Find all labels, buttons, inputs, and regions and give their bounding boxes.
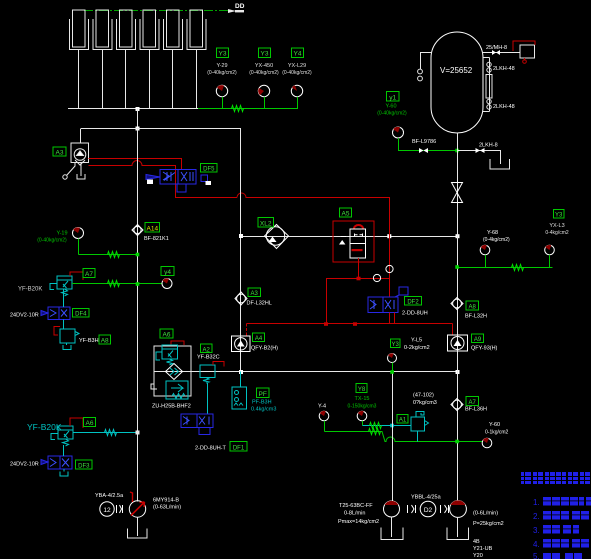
wire A6b to main x137 xyxy=(73,432,138,434)
gauge 2 xyxy=(258,85,270,108)
hand pump A3 xyxy=(63,143,89,179)
coil on A7 line xyxy=(108,281,120,287)
svg-text:PF: PF xyxy=(259,391,267,398)
svg-text:Pmax=14kg/cm2: Pmax=14kg/cm2 xyxy=(338,519,379,525)
accumulator 1 xyxy=(70,10,89,50)
node red junction 355 xyxy=(353,322,357,326)
wire Y-4 line with jog and hop xyxy=(325,432,483,442)
notes line 3 xyxy=(533,525,579,535)
label A8 xyxy=(99,335,111,345)
tank 2 xyxy=(381,528,403,540)
notes line 2 xyxy=(533,511,589,521)
motor M12 xyxy=(95,493,124,516)
svg-text:(0-40kg/cm2): (0-40kg/cm2) xyxy=(37,238,67,244)
drain funnel xyxy=(490,159,510,169)
svg-text:A8: A8 xyxy=(469,305,477,311)
wire x392 return drop xyxy=(392,372,394,502)
wire red main with hop over x241 xyxy=(237,193,390,224)
wire drain line right xyxy=(458,151,501,165)
svg-text:Y-19: Y-19 xyxy=(56,231,67,237)
node junction 241,236 xyxy=(239,234,243,238)
wire red pump header y324 xyxy=(247,323,453,325)
node junction 457,150 xyxy=(455,149,459,153)
svg-text:(0-4kg/cm2): (0-4kg/cm2) xyxy=(483,237,510,243)
gauge y4 xyxy=(161,267,174,289)
svg-text:2LKH-8: 2LKH-8 xyxy=(479,143,498,149)
svg-text:Y-68: Y-68 xyxy=(487,230,498,236)
svg-text:YX-L29: YX-L29 xyxy=(288,63,306,69)
node junction y284 xyxy=(136,282,140,286)
vessel left tap with valves xyxy=(418,53,432,81)
label DF1 xyxy=(230,442,247,452)
accumulator 2 xyxy=(93,10,112,50)
wire main vertical x137 xyxy=(137,129,139,502)
wire hand pump drop xyxy=(80,129,82,144)
label DF5 xyxy=(201,164,218,173)
pressure gauge tag Y4 xyxy=(282,48,312,76)
svg-text:Y4: Y4 xyxy=(294,51,302,58)
svg-text:QFY-B2(H): QFY-B2(H) xyxy=(251,346,278,352)
instrument y1 Y-60 xyxy=(377,92,407,139)
svg-text:4.: 4. xyxy=(533,540,540,549)
label A5 xyxy=(340,208,352,218)
valve BF-L9786 xyxy=(412,139,436,153)
svg-text:(0-40kg/cm2): (0-40kg/cm2) xyxy=(282,70,312,76)
node junction 457,441 xyxy=(455,440,459,444)
label A3 xyxy=(53,147,66,157)
svg-text:Y21-UB: Y21-UB xyxy=(473,546,493,552)
damping coil on bus xyxy=(232,106,244,112)
gauge pair line y267 xyxy=(455,265,552,271)
node junction 457,372 xyxy=(456,370,460,374)
motor D2 xyxy=(411,495,442,517)
relief valve A6b YF-B20K xyxy=(27,418,83,446)
wire A2 drain to DF1 xyxy=(207,383,209,414)
solenoid valve DF1 xyxy=(181,414,227,452)
svg-text:DF1: DF1 xyxy=(233,446,245,452)
pressure gauge tag Y3 xyxy=(207,48,237,76)
notes line 4 xyxy=(533,539,589,549)
svg-text:0-4kg/cm2: 0-4kg/cm2 xyxy=(545,230,569,236)
gauge Y-4 xyxy=(318,404,329,432)
wire red A5 drain xyxy=(358,258,360,279)
check valve A7b xyxy=(413,393,463,411)
accumulator 5 xyxy=(164,10,183,50)
node junction 392,425 xyxy=(390,424,394,428)
svg-text:Y-L5: Y-L5 xyxy=(411,338,422,344)
gauge Y3 on return xyxy=(388,339,401,374)
svg-text:A3: A3 xyxy=(56,150,64,157)
wire main return y372 xyxy=(155,371,458,373)
solenoid valve DF2 xyxy=(368,287,408,313)
svg-text:2-DD-8UH: 2-DD-8UH xyxy=(402,311,428,317)
svg-text:(0-40kg/cm2): (0-40kg/cm2) xyxy=(377,111,407,117)
solenoid valve DF4 xyxy=(10,289,70,329)
svg-text:A14: A14 xyxy=(147,226,159,233)
wire gauge y1 to vessel line xyxy=(399,138,458,151)
svg-text:A9: A9 xyxy=(474,337,482,343)
svg-text:(0-40kg/cm2): (0-40kg/cm2) xyxy=(249,70,279,76)
relief valve A7 YF-B20K xyxy=(18,272,83,296)
svg-text:6MY914-B: 6MY914-B xyxy=(153,498,179,504)
wire red DF2 drains to y324 xyxy=(390,313,395,324)
svg-text:Y20: Y20 xyxy=(473,553,483,559)
gauge tag Y8 TX-15 xyxy=(348,384,377,426)
wire red vertical x390 lower xyxy=(389,224,391,297)
wire gauge Y-19 to main xyxy=(79,254,138,256)
gauge 3 xyxy=(291,85,302,108)
svg-text:QFY-93(H): QFY-93(H) xyxy=(471,346,498,352)
valve A1 xyxy=(411,412,429,442)
level gauge column xyxy=(483,58,492,112)
label A4 xyxy=(251,333,278,352)
svg-text:0-2kg/cm2: 0-2kg/cm2 xyxy=(404,345,430,351)
wire red drop to pump A4 xyxy=(246,324,248,336)
valve A2 YF-B32C xyxy=(197,344,224,383)
wire A7 to gauge y4 xyxy=(72,283,162,285)
label A10 xyxy=(465,301,487,320)
svg-text:1.: 1. xyxy=(533,498,540,507)
vessel right line to level switch xyxy=(483,41,535,63)
shutoff valve hourglass xyxy=(452,183,463,203)
gauge Y-68 xyxy=(480,230,510,268)
svg-text:DF-L32HL: DF-L32HL xyxy=(247,301,272,307)
wire pump P3 to tank xyxy=(457,517,459,537)
solenoid valve DF5 xyxy=(146,170,211,193)
valve 2LKH-8 xyxy=(476,143,498,154)
svg-text:A5: A5 xyxy=(342,211,350,218)
svg-text:ZU-H25B-BHF2: ZU-H25B-BHF2 xyxy=(152,404,191,410)
label XL2 xyxy=(258,218,274,228)
label DF2 xyxy=(402,297,428,317)
svg-text:T25-63BC-FF: T25-63BC-FF xyxy=(339,503,373,509)
svg-text:Y-4: Y-4 xyxy=(318,404,326,410)
svg-text:V=25652: V=25652 xyxy=(440,66,473,75)
svg-text:A6: A6 xyxy=(86,420,94,427)
label A7b xyxy=(465,397,487,413)
filter PF xyxy=(232,372,247,410)
svg-text:YF-B20K: YF-B20K xyxy=(18,287,42,293)
svg-text:A8: A8 xyxy=(101,338,109,345)
svg-text:0-150kg/cm3: 0-150kg/cm3 xyxy=(348,404,377,410)
svg-text:YBA-4/2.5a: YBA-4/2.5a xyxy=(95,493,124,499)
svg-text:4B: 4B xyxy=(473,539,480,545)
check valve A10 xyxy=(451,298,463,310)
wire pump suction line y236 xyxy=(241,236,458,238)
svg-text:BF-L36H: BF-L36H xyxy=(465,407,487,413)
svg-text:YF-B20K: YF-B20K xyxy=(27,422,62,432)
svg-text:(0-40kg/cm2): (0-40kg/cm2) xyxy=(207,70,237,76)
wire header drop xyxy=(137,109,139,129)
check valve A14 xyxy=(132,225,143,236)
check valve A13 xyxy=(235,292,247,305)
pump A4 xyxy=(232,336,251,352)
svg-text:0-8L/min: 0-8L/min xyxy=(344,511,365,517)
svg-text:XL2: XL2 xyxy=(260,221,272,228)
wire pump P1 to tank xyxy=(137,517,139,536)
svg-text:PF-B3H: PF-B3H xyxy=(252,400,272,406)
svg-text:A6: A6 xyxy=(163,332,171,339)
tank 3 xyxy=(447,528,469,540)
svg-text:3.: 3. xyxy=(533,526,540,535)
svg-text:DF5: DF5 xyxy=(203,167,215,173)
label A13 xyxy=(247,288,272,307)
valve A8 YF-B3H xyxy=(54,327,99,350)
node junction y255 xyxy=(136,253,140,257)
filter unit A6 frame xyxy=(151,346,191,396)
tank 1 xyxy=(128,529,148,539)
svg-text:DF3: DF3 xyxy=(78,464,90,470)
svg-text:24DV2-10R: 24DV2-10R xyxy=(10,313,39,319)
svg-text:2LKH-48: 2LKH-48 xyxy=(493,104,515,110)
wire red drop to pump A9 xyxy=(452,324,454,336)
svg-text:2-DD-8UH-T: 2-DD-8UH-T xyxy=(195,446,227,452)
centerline to control system xyxy=(84,3,245,13)
coil on Y-19 line xyxy=(108,252,120,258)
svg-text:y4: y4 xyxy=(164,269,171,276)
svg-text:A2: A2 xyxy=(203,348,211,354)
svg-text:Y-60: Y-60 xyxy=(385,104,396,110)
label A6b xyxy=(84,418,96,428)
svg-text:0?kg/cm3: 0?kg/cm3 xyxy=(413,400,437,406)
svg-text:YX-L3: YX-L3 xyxy=(549,223,564,229)
svg-text:12: 12 xyxy=(103,507,111,514)
label A14 xyxy=(144,223,169,243)
notes title blue CJK xyxy=(521,472,590,484)
node bus junction xyxy=(136,107,140,111)
coil on TX line xyxy=(370,423,382,429)
pump P3 xyxy=(450,500,504,527)
svg-text:(0-6L/min): (0-6L/min) xyxy=(473,511,498,517)
svg-text:D2: D2 xyxy=(424,507,433,514)
svg-text:YF-B3H: YF-B3H xyxy=(79,338,99,344)
svg-text:YF-B32C: YF-B32C xyxy=(197,355,220,361)
svg-text:A1: A1 xyxy=(399,418,407,424)
wire red pump outlet lower with hop xyxy=(89,161,238,198)
node junction 457,236 xyxy=(456,234,460,238)
svg-text:DF4: DF4 xyxy=(75,312,87,318)
filter XL2 xyxy=(265,225,289,249)
svg-text:DD: DD xyxy=(235,3,245,10)
svg-text:(0-63L/min): (0-63L/min) xyxy=(153,505,181,511)
svg-text:A7: A7 xyxy=(85,271,93,278)
wire header line xyxy=(81,128,241,130)
accumulator legs xyxy=(79,50,197,109)
pump A9 xyxy=(404,335,468,351)
wire bus green extension xyxy=(198,108,298,110)
coil on Y-4 line xyxy=(369,429,381,435)
node red junction 326 xyxy=(324,322,328,326)
svg-text:Y8: Y8 xyxy=(358,387,366,393)
wire pump P2 to tank xyxy=(391,517,393,537)
notes line 1 xyxy=(533,497,591,507)
label PF xyxy=(251,388,276,413)
svg-text:y1: y1 xyxy=(389,95,396,102)
check valve in A6 xyxy=(166,364,183,380)
svg-text:5.: 5. xyxy=(533,552,540,559)
accumulator 4 xyxy=(140,10,159,50)
svg-text:Y3: Y3 xyxy=(555,213,563,219)
svg-text:A3: A3 xyxy=(251,291,259,297)
coupling 2 xyxy=(408,505,416,513)
svg-text:Y3: Y3 xyxy=(219,51,227,58)
svg-text:2LKH-48: 2LKH-48 xyxy=(493,66,515,72)
solenoid valve DF3 xyxy=(10,445,72,476)
wire accumulator bus white xyxy=(68,108,198,110)
notes line 5 xyxy=(533,552,582,559)
coupling 1 xyxy=(117,505,123,513)
node junction 241,372 xyxy=(239,370,243,374)
svg-text:Y3: Y3 xyxy=(392,342,400,348)
orifice circle on x390 xyxy=(386,265,393,272)
svg-text:0.4kg/cm3: 0.4kg/cm3 xyxy=(251,407,276,413)
level gauge labels xyxy=(493,66,515,110)
wire vessel down main x457 xyxy=(457,133,459,501)
relief valve in A6 xyxy=(156,341,184,365)
pump P1 xyxy=(129,492,181,517)
label A6 xyxy=(160,329,173,339)
svg-text:YX-450: YX-450 xyxy=(255,63,273,69)
wire TX line to valve A1 xyxy=(363,425,412,427)
gauge tag Y3 right xyxy=(545,210,569,268)
svg-text:DF2: DF2 xyxy=(407,300,419,306)
gauge Y-19 xyxy=(37,227,83,254)
node junction 137,432 xyxy=(136,431,140,435)
label A1 xyxy=(397,415,408,424)
svg-text:A4: A4 xyxy=(255,336,263,342)
svg-text:25/MH-8: 25/MH-8 xyxy=(486,45,507,51)
valve A5 body xyxy=(339,225,366,258)
coil on A6b line xyxy=(105,430,117,436)
pump P2 xyxy=(338,501,400,525)
svg-text:2.: 2. xyxy=(533,512,540,521)
label A7 xyxy=(83,269,95,279)
wire red pump outlet upper xyxy=(89,159,182,170)
svg-text:TX-15: TX-15 xyxy=(355,396,370,402)
wire red y278 xyxy=(327,279,390,324)
label A9 xyxy=(471,334,498,352)
wire vertical x241 xyxy=(240,129,242,372)
unloading valve A5 red frame xyxy=(333,221,374,262)
vessel V=25652 xyxy=(431,32,483,133)
svg-text:BF-821K1: BF-821K1 xyxy=(144,236,169,242)
label DF3 xyxy=(76,460,93,470)
pump unit notes xyxy=(473,539,493,559)
gauge 1 xyxy=(216,85,227,108)
svg-text:BF-L9786: BF-L9786 xyxy=(412,139,436,145)
coupling 3 xyxy=(441,505,449,513)
svg-text:YBBL-4/25a: YBBL-4/25a xyxy=(411,495,442,501)
node red junction 358,278 xyxy=(357,277,361,281)
node junction 389,236 xyxy=(387,234,391,238)
filter element in A6 xyxy=(152,381,191,410)
svg-text:A7: A7 xyxy=(469,400,477,406)
pressure gauge tag Y3b xyxy=(249,48,279,76)
accumulator 3 xyxy=(117,10,136,50)
node header drop junction xyxy=(136,127,140,131)
accumulator 6 xyxy=(187,10,206,50)
svg-text:P=25kg/cm2: P=25kg/cm2 xyxy=(473,521,504,527)
gauge Y-60 bottom xyxy=(482,422,508,448)
svg-text:Y3: Y3 xyxy=(261,51,269,58)
svg-text:(47-102): (47-102) xyxy=(413,393,434,399)
svg-text:Y-29: Y-29 xyxy=(216,63,227,69)
orifice circle on y278 xyxy=(373,274,380,281)
svg-text:BF-L32H: BF-L32H xyxy=(465,314,487,320)
svg-text:Y-60: Y-60 xyxy=(489,422,500,428)
svg-text:24DV2-10R: 24DV2-10R xyxy=(10,462,39,468)
label DF4 xyxy=(73,309,90,318)
svg-text:0-1kg/cm2: 0-1kg/cm2 xyxy=(485,430,509,436)
